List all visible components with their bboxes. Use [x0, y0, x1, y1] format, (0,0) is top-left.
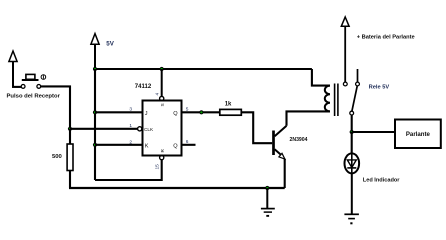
wire Q to R2: [182, 111, 220, 113]
svg-text:5V: 5V: [106, 41, 114, 48]
svg-text:S: S: [160, 103, 165, 106]
speaker box Parlante: [395, 120, 441, 149]
svg-text:Q: Q: [173, 111, 178, 117]
wire top rail: [95, 68, 312, 70]
ground GND2: [344, 214, 359, 224]
svg-text:3: 3: [129, 106, 132, 112]
resistor R1 500: [67, 144, 73, 171]
wire terminal to button: [12, 86, 21, 88]
wire 5V vertical: [94, 69, 96, 180]
wire node to resistor R1: [69, 129, 71, 144]
junction speaker node: [350, 130, 354, 134]
svg-text:1k: 1k: [225, 101, 232, 107]
svg-text:2: 2: [129, 139, 132, 145]
svg-text:CLK: CLK: [144, 127, 154, 132]
svg-text:15: 15: [155, 164, 161, 170]
wire to K pin: [95, 144, 143, 146]
wire rail to coil top: [312, 69, 330, 86]
op IC U1 74112 box: [143, 101, 182, 156]
wire R2 to base: [241, 112, 272, 143]
relay contact bottom: [350, 111, 354, 115]
wire rail to PRE pin: [161, 69, 163, 97]
junction node CLK: [68, 127, 72, 131]
CLK inversion bubble: [138, 127, 142, 131]
wire CLR run: [95, 160, 162, 180]
svg-text:Rele 5V: Rele 5V: [369, 85, 390, 91]
relay RL1 coil: [325, 86, 330, 112]
wire CLK: [70, 128, 138, 130]
svg-text:4: 4: [155, 93, 161, 96]
CLR bubble pin 15: [160, 156, 164, 160]
PRE bubble pin 4: [160, 96, 164, 100]
wire to J pin: [95, 111, 143, 113]
svg-text:500: 500: [52, 154, 63, 160]
svg-text:Pulso del Receptor: Pulso del Receptor: [7, 94, 61, 100]
junction J: [93, 110, 97, 114]
wire LED to ground: [351, 173, 353, 213]
relay blade: [352, 86, 357, 111]
LED D1: [345, 153, 360, 173]
junction Q wire: [199, 110, 203, 114]
resistor R2 1k: [220, 109, 242, 115]
ground GND1: [261, 188, 275, 217]
svg-text:Q: Q: [173, 143, 178, 149]
svg-text:2N3904: 2N3904: [290, 137, 308, 143]
wire contact to node: [351, 115, 353, 132]
svg-text:+ Bateria del Parlante: + Bateria del Parlante: [357, 34, 415, 40]
pushbutton SW1: [21, 74, 46, 88]
wire button to CLK node: [41, 86, 70, 128]
wire collector to coil: [287, 111, 331, 125]
wire Qbar stub pin 6: [182, 144, 196, 146]
svg-text:74112: 74112: [135, 84, 152, 90]
junction rail to PRE: [160, 67, 164, 71]
svg-text:1: 1: [129, 123, 132, 129]
transistor Q1 2N3904: [274, 126, 287, 159]
relay contact right: [356, 82, 360, 86]
svg-text:Parlante: Parlante: [406, 131, 431, 138]
svg-text:K: K: [145, 143, 149, 149]
junction ground rail: [265, 186, 269, 190]
wire bottom rail: [69, 187, 285, 189]
relay contact left: [343, 82, 347, 86]
power terminal T3 battery: [341, 17, 349, 82]
svg-text:J: J: [145, 111, 148, 117]
relay contact right stub: [357, 69, 359, 82]
svg-text:Led Indicador: Led Indicador: [363, 177, 400, 183]
wire emitter to rail: [284, 159, 286, 188]
power terminal T2 5V: [91, 34, 99, 69]
junction K: [93, 143, 97, 147]
wire R1 to bottom rail: [69, 171, 71, 189]
relay core: [335, 84, 338, 117]
junction 5V rail left: [93, 67, 97, 71]
wire node to LED: [351, 132, 353, 154]
wire node to speaker: [352, 131, 395, 133]
power terminal T1 (input, left): [9, 51, 17, 87]
